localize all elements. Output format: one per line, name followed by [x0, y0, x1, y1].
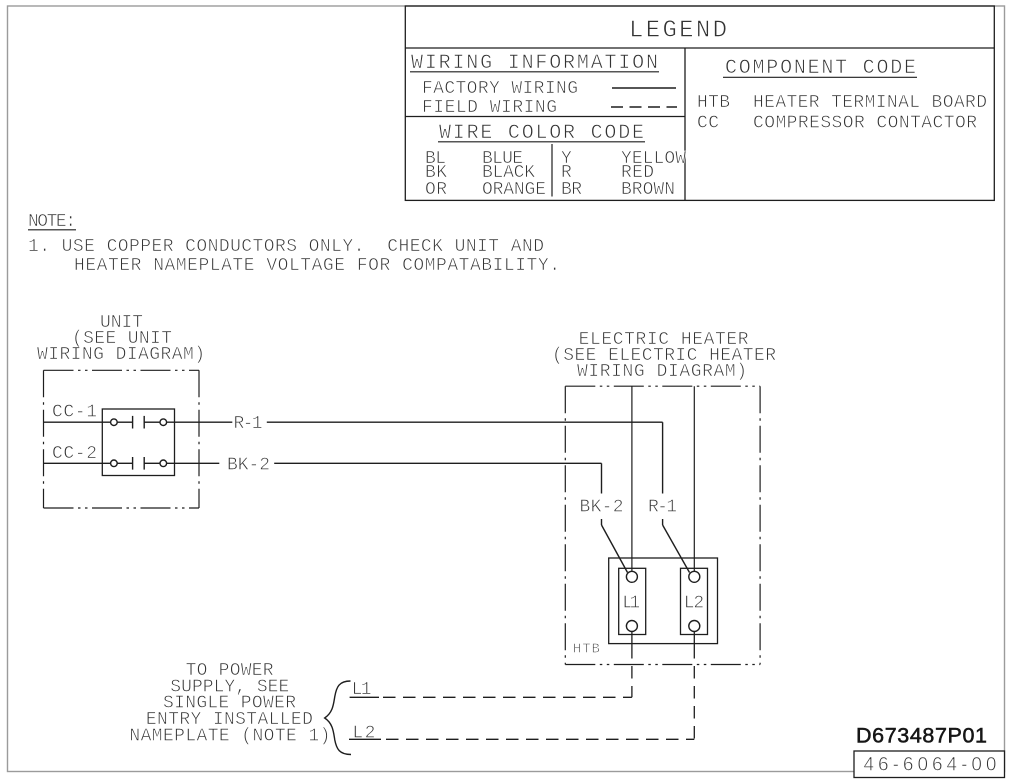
- svg-text:OR: OR: [425, 180, 447, 200]
- svg-text:L2: L2: [352, 724, 375, 744]
- svg-text:CC: CC: [697, 114, 719, 134]
- svg-text:WIRING DIAGRAM): WIRING DIAGRAM): [577, 362, 747, 382]
- svg-text:COMPRESSOR CONTACTOR: COMPRESSOR CONTACTOR: [753, 114, 977, 134]
- svg-text:HTB: HTB: [697, 93, 730, 113]
- svg-text:ORANGE: ORANGE: [482, 180, 546, 200]
- svg-text:FIELD WIRING: FIELD WIRING: [422, 98, 557, 118]
- svg-text:LEGEND: LEGEND: [629, 18, 727, 45]
- svg-text:HTB: HTB: [573, 641, 600, 657]
- svg-text:FACTORY WIRING: FACTORY WIRING: [422, 79, 578, 99]
- svg-text:CC-2: CC-2: [52, 444, 97, 464]
- svg-text:R-1: R-1: [648, 497, 677, 517]
- svg-text:WIRING DIAGRAM): WIRING DIAGRAM): [37, 345, 205, 365]
- svg-text:CC-1: CC-1: [52, 403, 97, 423]
- svg-text:BK-2: BK-2: [580, 497, 624, 517]
- svg-text:L1: L1: [622, 594, 640, 614]
- svg-text:BK-2: BK-2: [227, 455, 270, 475]
- svg-text:L2: L2: [684, 594, 705, 614]
- svg-text:HEATER NAMEPLATE VOLTAGE FOR C: HEATER NAMEPLATE VOLTAGE FOR COMPATABILI…: [74, 256, 560, 276]
- svg-text:NOTE:: NOTE:: [28, 212, 76, 232]
- svg-text:HEATER TERMINAL BOARD: HEATER TERMINAL BOARD: [753, 93, 987, 113]
- svg-text:BR: BR: [561, 180, 582, 200]
- svg-text:BROWN: BROWN: [621, 180, 675, 200]
- svg-text:D673487P01: D673487P01: [856, 724, 987, 748]
- svg-text:R-1: R-1: [234, 414, 263, 434]
- svg-text:1. USE COPPER CONDUCTORS ONLY.: 1. USE COPPER CONDUCTORS ONLY. CHECK UNI…: [28, 237, 544, 257]
- svg-text:COMPONENT CODE: COMPONENT CODE: [725, 57, 916, 80]
- svg-text:NAMEPLATE (NOTE 1): NAMEPLATE (NOTE 1): [129, 726, 330, 746]
